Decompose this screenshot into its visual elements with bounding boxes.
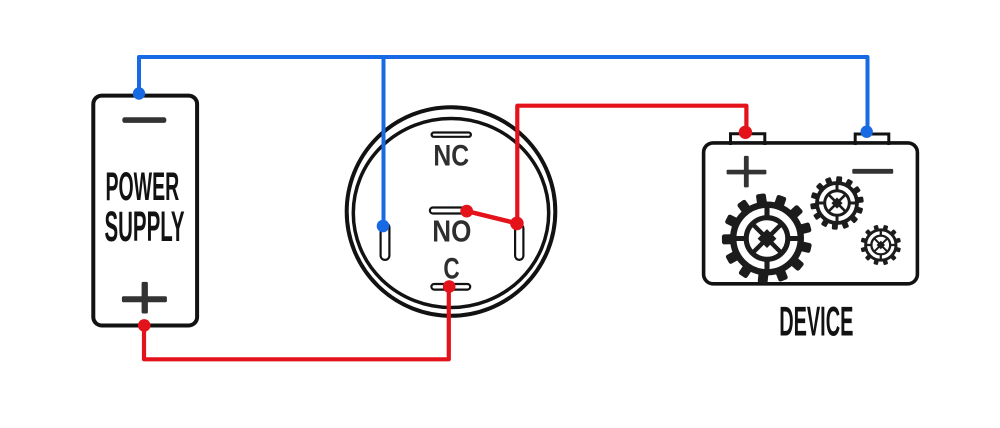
node red dot at switch right pin bbox=[510, 217, 524, 231]
wire blue branch down to switch left pin bbox=[382, 57, 386, 226]
device gear small bbox=[861, 225, 901, 265]
svg-text:DEVICE: DEVICE bbox=[779, 298, 853, 345]
device gear medium bbox=[810, 176, 864, 230]
svg-text:NO: NO bbox=[432, 215, 471, 249]
node blue dot at power supply minus bbox=[133, 87, 145, 99]
switch NO terminal slot bbox=[430, 208, 466, 214]
push button switch body inner circle bbox=[353, 119, 548, 308]
power supply plus terminal symbol bbox=[122, 282, 167, 314]
device left battery tab bbox=[731, 134, 765, 145]
wire blue: power supply minus to switch left pin and device minus bbox=[139, 57, 868, 130]
node red dot at device plus tab bbox=[739, 126, 752, 139]
node blue dot at switch left pin bbox=[377, 220, 390, 233]
svg-text:SUPPLY: SUPPLY bbox=[105, 203, 185, 251]
wire red: power supply plus to switch C terminal bbox=[144, 287, 449, 359]
node red dot at switch C terminal bbox=[443, 280, 456, 293]
switch NC terminal slot bbox=[432, 133, 471, 137]
device gear large bbox=[722, 193, 812, 284]
device right battery tab bbox=[855, 134, 889, 145]
switch left pin bbox=[381, 223, 390, 260]
svg-text:NC: NC bbox=[433, 139, 469, 172]
device box bbox=[704, 143, 918, 284]
wire red: switch right pin to device plus bbox=[517, 106, 746, 224]
switch right pin bbox=[515, 224, 523, 260]
switch C terminal slot bbox=[431, 284, 470, 290]
power supply minus terminal symbol bbox=[122, 117, 166, 123]
device minus terminal symbol bbox=[852, 169, 893, 174]
push button switch body outer circle bbox=[347, 107, 556, 316]
node red dot at NO terminal bbox=[460, 205, 473, 218]
wire red jumper: NO terminal to right pin bbox=[467, 211, 517, 223]
node blue dot at device minus tab bbox=[861, 126, 873, 138]
power supply box bbox=[93, 96, 197, 326]
device plus terminal symbol bbox=[727, 156, 767, 188]
node red dot at power supply plus bbox=[138, 319, 151, 332]
